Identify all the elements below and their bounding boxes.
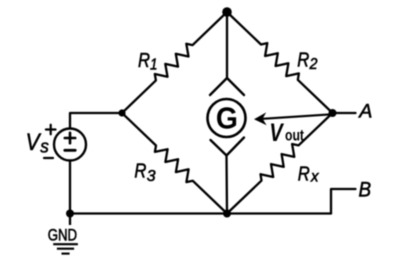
wire — [333, 112, 356, 114]
polarity plus — [46, 125, 56, 135]
svg-text:GND: GND — [48, 226, 77, 245]
svg-text:A: A — [358, 100, 372, 122]
galvanometer G — [208, 99, 246, 137]
voltage source Vs — [54, 129, 86, 161]
svg-text:B: B — [359, 177, 372, 201]
svg-text:R: R — [138, 49, 150, 72]
svg-text:s: s — [40, 136, 49, 157]
svg-text:R: R — [298, 163, 310, 186]
galvanometer chevron top — [210, 78, 244, 95]
ground — [53, 244, 78, 253]
wire — [225, 156, 228, 214]
svg-text:R: R — [297, 48, 309, 71]
svg-text:V: V — [269, 120, 284, 147]
wire — [70, 212, 331, 214]
polarity minus — [44, 157, 53, 159]
node bottom — [223, 210, 231, 218]
node ground junction — [66, 210, 74, 218]
svg-text:3: 3 — [147, 168, 156, 185]
svg-text:1: 1 — [150, 57, 158, 74]
resistor R1 — [122, 12, 227, 113]
svg-text:out: out — [285, 128, 305, 145]
node top — [222, 7, 232, 17]
wire — [331, 189, 356, 214]
svg-text:R: R — [134, 159, 146, 182]
resistor R2 — [227, 12, 333, 113]
svg-text:G: G — [216, 101, 238, 136]
node A — [329, 109, 337, 117]
node left — [118, 109, 125, 116]
Vout arrow — [263, 114, 332, 119]
resistor R3 — [122, 113, 227, 214]
resistor Rx — [227, 113, 333, 214]
wire ground stub — [69, 214, 71, 226]
wire — [70, 113, 122, 129]
wire — [69, 161, 71, 214]
svg-text:V: V — [26, 129, 42, 156]
galvanometer chevron bottom — [211, 138, 245, 156]
svg-text:x: x — [310, 169, 319, 186]
wire — [226, 12, 228, 78]
svg-text:2: 2 — [309, 56, 318, 73]
